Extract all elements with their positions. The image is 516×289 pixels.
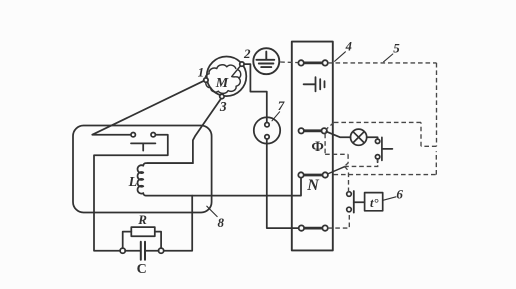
svg-text:R: R xyxy=(137,212,147,227)
svg-text:7: 7 xyxy=(278,98,285,113)
dashed wire: below phase terminal down xyxy=(324,134,326,155)
resistor R branch xyxy=(123,232,161,249)
block terminal row 2 (phase) link xyxy=(304,129,322,132)
svg-text:8: 8 xyxy=(218,215,225,230)
dashed wire: junction down to thermostat xyxy=(344,167,348,192)
wire: long neutral run from coil bottom to block N terminal xyxy=(212,178,302,196)
dashed wire: block row1 right to far right drop xyxy=(328,62,437,64)
capacitor C xyxy=(125,250,159,252)
blade from N terminal to junction xyxy=(328,167,345,174)
switch bridge bar with stem xyxy=(131,143,155,150)
wire: switch right contact down and across to RC node xyxy=(94,135,168,251)
wire: motor terminal 1 to shield switch (diagonal) xyxy=(92,81,204,135)
chassis earth symbol inside block xyxy=(304,77,325,91)
svg-text:1: 1 xyxy=(198,64,205,79)
switch blade from phase terminal to lamp xyxy=(326,132,350,138)
svg-text:L: L xyxy=(128,175,138,190)
inductor L coil xyxy=(138,163,212,196)
svg-text:N: N xyxy=(306,177,320,194)
dashed wire: bottom row to thermostat bottom xyxy=(328,212,350,228)
svg-text:M: M xyxy=(215,76,229,91)
dashed wire: jog left xyxy=(421,145,437,147)
svg-text:Ф: Ф xyxy=(311,139,323,155)
wire: terminal 2 to connector X1 (down right side) xyxy=(244,64,267,122)
pushbutton SB bottom contact xyxy=(375,155,379,159)
label 5 with pointer xyxy=(384,54,393,62)
motor M1 body xyxy=(207,57,247,97)
svg-text:C: C xyxy=(137,262,147,277)
dashed wire: lamp feed horizontal xyxy=(334,121,421,123)
motor terminal 3 xyxy=(220,94,224,98)
svg-text:6: 6 xyxy=(396,187,403,202)
label 8 with pointer xyxy=(207,206,217,216)
wire: lamp to pushbutton top contact xyxy=(367,137,378,139)
stub below pushbutton bottom contact xyxy=(377,159,379,162)
shield enclosure, item 8 xyxy=(73,126,212,213)
protective earth symbol (circle) xyxy=(253,48,279,74)
block terminal row 4 (bottom) link xyxy=(304,227,323,230)
wire: motor terminal 3 into shield to coil top xyxy=(147,99,221,164)
RC node right junction xyxy=(159,248,164,253)
dashed wire: diagonal into phase terminal xyxy=(326,122,334,129)
dashed wire: N row long run right xyxy=(334,174,437,176)
motor winding scribble xyxy=(205,64,242,93)
svg-text:5: 5 xyxy=(393,40,400,55)
centrifugal switch left contact xyxy=(131,133,135,137)
thermostat SK contacts xyxy=(347,192,352,197)
label 7 with pointer xyxy=(272,112,280,121)
svg-text:4: 4 xyxy=(345,39,352,53)
dashed wire: right vertical drop xyxy=(436,63,438,146)
motor terminal 2 xyxy=(240,62,244,66)
pushbutton SB top contact xyxy=(375,139,379,143)
dashed wire: up to lamp feed xyxy=(420,122,422,146)
terminal block (item 4) xyxy=(292,42,333,251)
motor terminal 1 xyxy=(204,78,208,82)
dashed wire: across to mid drop xyxy=(325,153,348,155)
block terminal row 1 (earth) link xyxy=(304,62,323,65)
thermostat bridge bar xyxy=(353,191,355,213)
thermostat link to sensor box xyxy=(354,201,365,203)
dashed wire: earth circle to block row 1 xyxy=(280,61,298,64)
wire: RC network right leg up to neutral run xyxy=(163,196,192,251)
thermostat sensor box t xyxy=(365,193,383,211)
wire: connector X1 bottom to terminal block bottom row xyxy=(267,139,299,228)
block terminal row 3 (neutral N) link xyxy=(304,174,323,177)
pushbutton bridge and actuator xyxy=(382,137,393,160)
centrifugal switch right contact xyxy=(151,133,155,137)
signal lamp HL xyxy=(351,129,367,145)
dashed wire: junction to pushbutton xyxy=(344,160,378,167)
label 6 with pointer xyxy=(383,197,396,201)
dashed wire: mid drop down xyxy=(344,154,348,166)
label 4 with pointer xyxy=(335,52,346,62)
connector X1 (circle with two pins), item 7 xyxy=(254,117,280,143)
dashed flexible wiring xyxy=(280,62,436,228)
svg-text:2: 2 xyxy=(243,46,251,61)
RC node left junction xyxy=(120,248,125,253)
svg-text:t°: t° xyxy=(370,196,378,210)
resistor R body xyxy=(131,227,155,236)
dashed wire: long run up stub xyxy=(435,151,437,174)
